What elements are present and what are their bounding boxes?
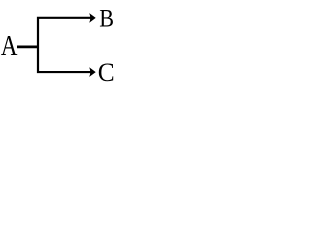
svg-text:B: B [99, 4, 114, 33]
svg-text:C: C [98, 57, 115, 87]
svg-text:A: A [1, 31, 18, 62]
